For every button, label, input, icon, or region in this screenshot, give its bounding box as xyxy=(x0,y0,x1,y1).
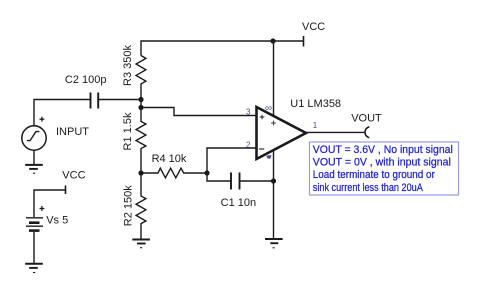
U1 positive supply marker xyxy=(271,121,276,126)
ground (under INPUT source) xyxy=(25,165,43,173)
svg-text:VCC: VCC xyxy=(302,21,325,33)
wire xyxy=(99,99,141,101)
op-amp U1 xyxy=(257,107,307,159)
wire xyxy=(34,100,90,126)
wire xyxy=(273,41,275,116)
svg-text:2: 2 xyxy=(246,141,251,150)
svg-text:3: 3 xyxy=(246,108,251,117)
svg-text:R3 350k: R3 350k xyxy=(122,45,134,86)
power VCC (battery side) xyxy=(34,190,66,217)
capacitor C1 xyxy=(231,173,240,190)
ground (under U1/C1) xyxy=(265,239,283,248)
svg-text:∞: ∞ xyxy=(265,103,272,114)
wire xyxy=(240,180,273,182)
U1 negative supply marker xyxy=(266,155,271,159)
svg-text:R4 10k: R4 10k xyxy=(152,153,187,165)
svg-text:VOUT = 3.6V , No input signal: VOUT = 3.6V , No input signal xyxy=(313,144,453,156)
annotation box xyxy=(310,142,459,195)
wire VCC rail (top) xyxy=(141,41,304,56)
wire (U1 V- to ground) xyxy=(273,150,275,239)
wire (node D to U1 pin 2) xyxy=(207,148,256,173)
svg-text:VOUT = 0V , with input signal: VOUT = 0V , with input signal xyxy=(313,157,451,169)
svg-text:C2 100p: C2 100p xyxy=(65,74,107,86)
node B junction xyxy=(138,105,143,110)
voltage source V1 (INPUT) xyxy=(22,126,46,150)
svg-text:Load terminate to ground or: Load terminate to ground or xyxy=(313,169,435,181)
svg-text:Vs 5: Vs 5 xyxy=(46,215,68,227)
wire (node B to U1 pin 3) xyxy=(141,108,256,116)
wire (U1 output) xyxy=(306,131,365,133)
svg-text:C1 10n: C1 10n xyxy=(221,197,256,209)
svg-text:sink current less than 20uA: sink current less than 20uA xyxy=(313,182,424,194)
resistor R2 xyxy=(136,173,146,239)
svg-text:VOUT: VOUT xyxy=(351,113,382,125)
svg-text:U1 LM358: U1 LM358 xyxy=(290,98,341,110)
capacitor C2 xyxy=(91,93,99,109)
ground (under R2) xyxy=(132,240,150,248)
U1 inverting input marker xyxy=(259,148,264,150)
svg-text:INPUT: INPUT xyxy=(56,126,89,138)
battery V2 Vs 5 xyxy=(26,206,44,231)
U1 non-inverting input marker xyxy=(260,115,265,120)
resistor R4 xyxy=(141,168,207,178)
svg-text:R2 150k: R2 150k xyxy=(122,185,134,226)
svg-text:R1 1.5k: R1 1.5k xyxy=(122,112,134,150)
junction (VCC rail to U1 V+) xyxy=(270,38,275,43)
power VCC (top) xyxy=(303,36,305,47)
terminal VOUT connector xyxy=(365,127,369,138)
wire (node D down to C1) xyxy=(207,173,231,181)
resistor R3 xyxy=(136,56,146,100)
svg-text:1: 1 xyxy=(313,121,318,130)
node A junction xyxy=(138,97,143,102)
wire xyxy=(33,150,35,164)
node D junction xyxy=(204,170,209,175)
wire xyxy=(140,100,142,108)
node C junction xyxy=(138,170,143,175)
svg-text:VCC: VCC xyxy=(62,170,85,182)
ground (under battery) xyxy=(25,264,43,273)
wire xyxy=(33,232,35,263)
resistor R1 xyxy=(136,108,146,174)
node E junction xyxy=(271,178,276,183)
